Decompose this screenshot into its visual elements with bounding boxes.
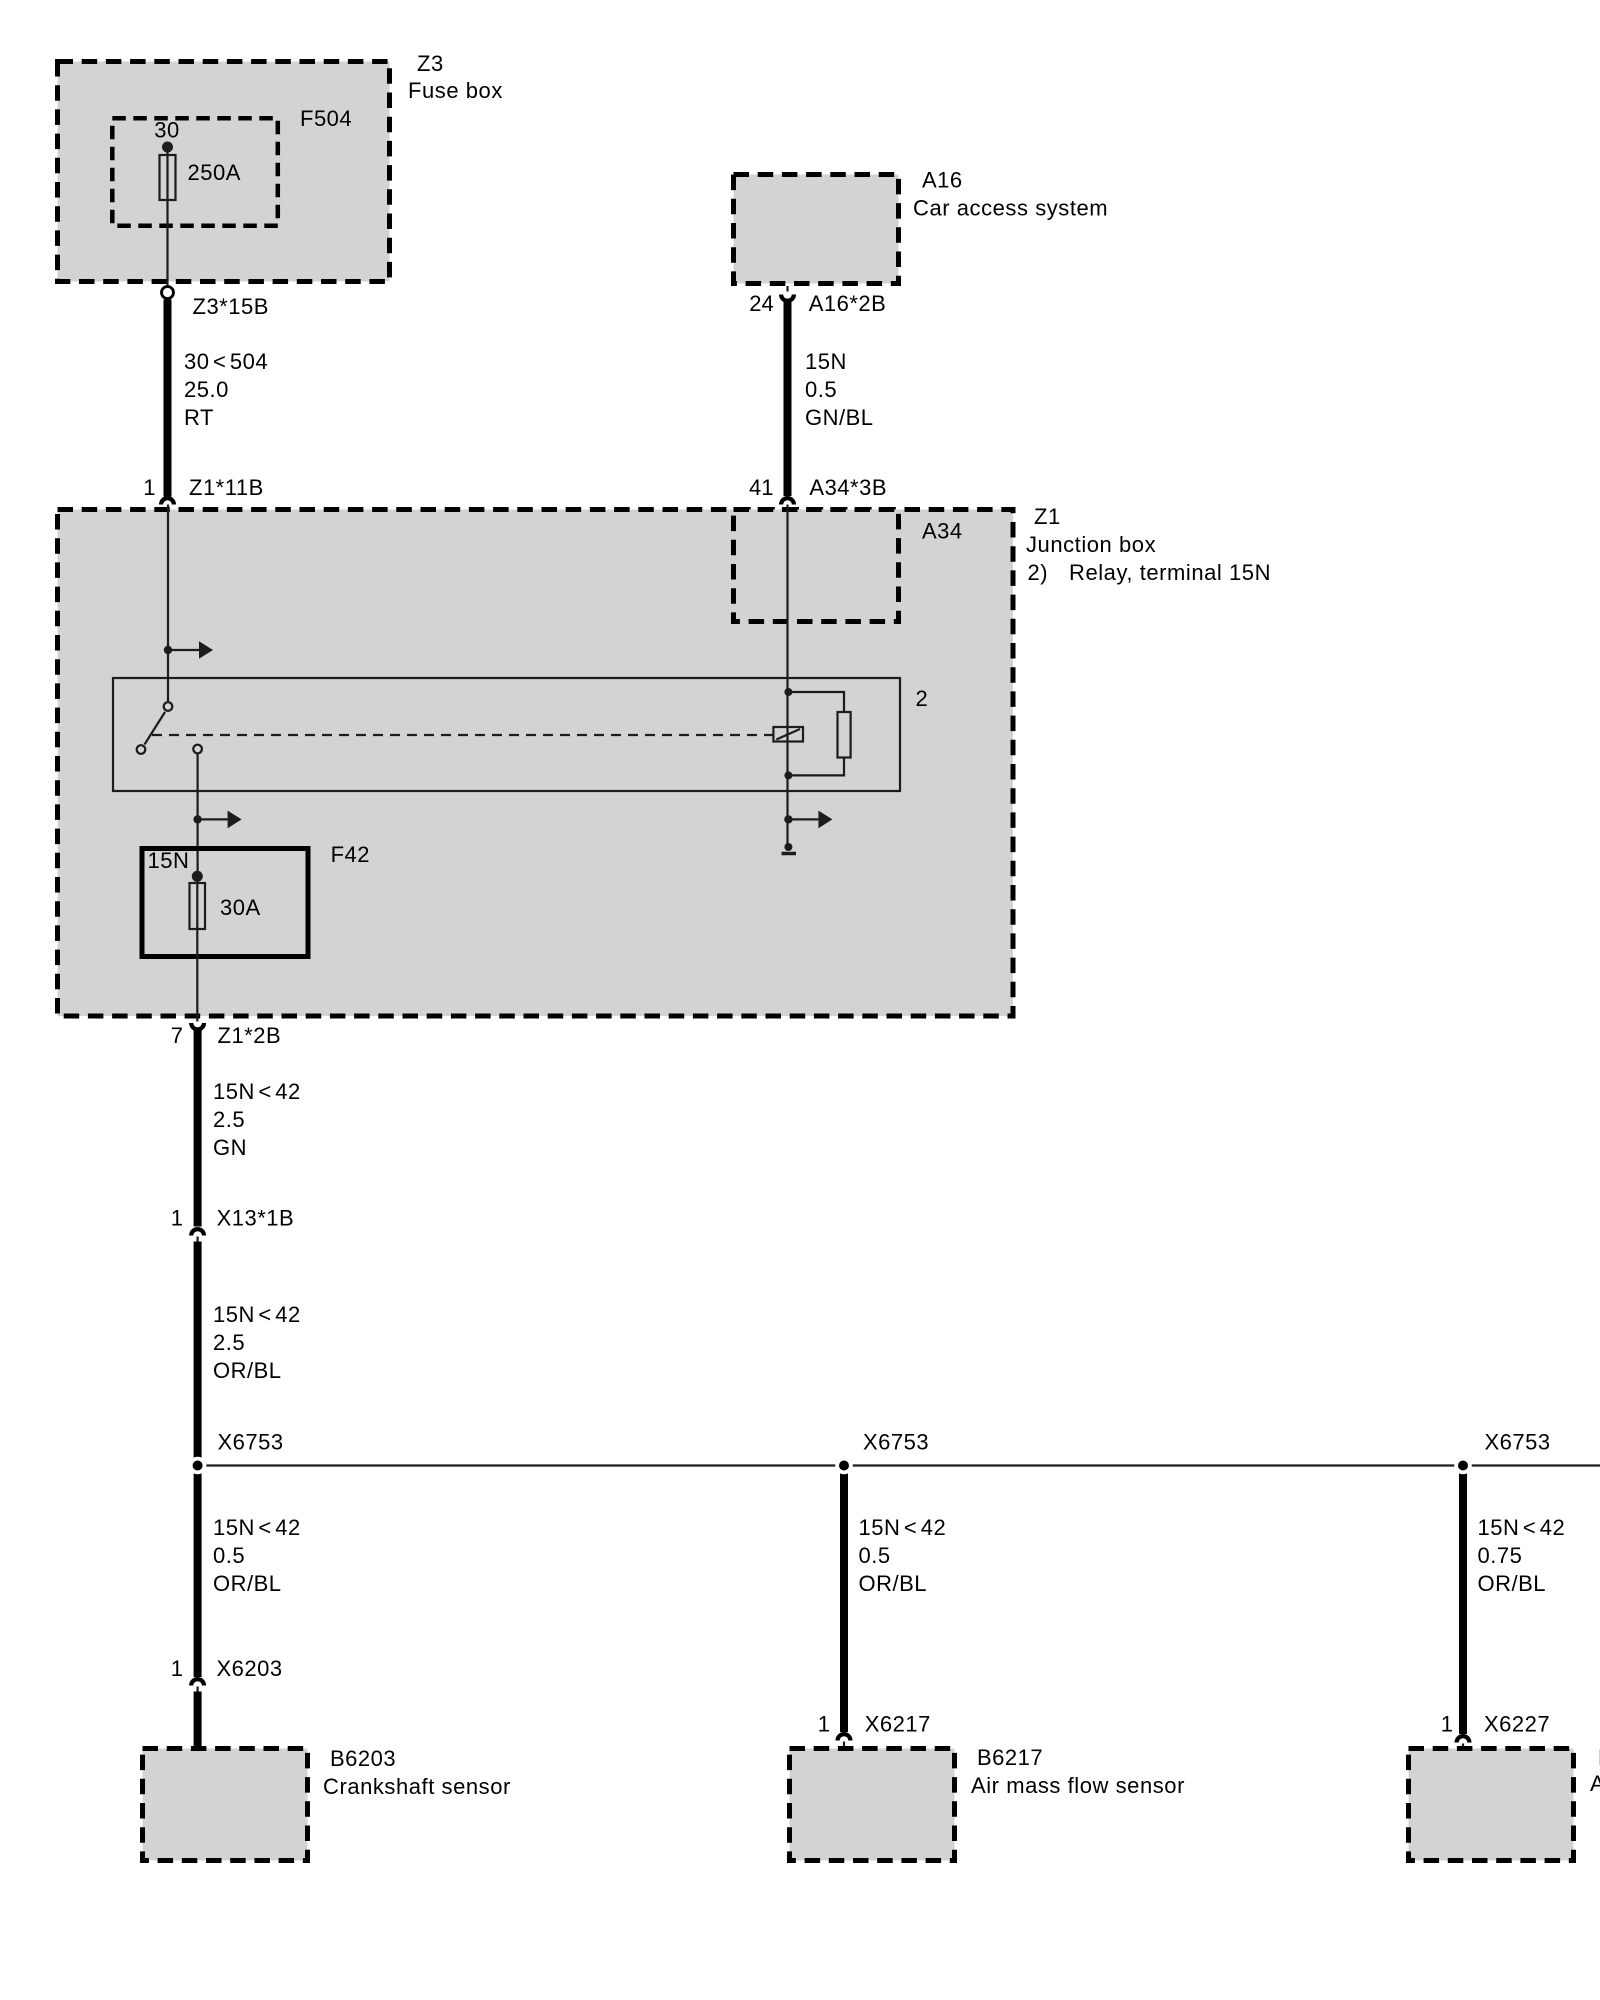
label 15N	[148, 848, 190, 873]
svg-text:RT: RT	[184, 405, 214, 430]
pin 1 connector X6217	[818, 1712, 931, 1747]
pin 1 connector X13*1B	[171, 1206, 294, 1242]
svg-text:A16*2B: A16*2B	[809, 291, 887, 316]
svg-text:A34*3B: A34*3B	[809, 475, 887, 500]
splice X6753 right	[1454, 1430, 1550, 1475]
module B6203 Crankshaft sensor	[143, 1746, 511, 1861]
svg-text:Crankshaft sensor: Crankshaft sensor	[323, 1774, 511, 1799]
pin 1 connector X6227	[1441, 1712, 1550, 1749]
svg-text:B6217: B6217	[977, 1745, 1043, 1770]
svg-text:Relay, terminal 15N: Relay, terminal 15N	[1069, 560, 1271, 585]
svg-text:Z3: Z3	[417, 51, 444, 76]
label Z1 Junction box	[1026, 504, 1271, 585]
svg-text:15N: 15N	[805, 349, 847, 374]
wire X6203 to B6203	[194, 1692, 202, 1747]
fuse F504 250A	[160, 155, 241, 200]
branch wire to X6227	[1463, 1466, 1565, 1734]
svg-text:2): 2)	[1028, 560, 1049, 585]
wire 30<504 25.0 RT	[168, 300, 269, 497]
coil suppression resistor	[788, 692, 850, 775]
module A16 Car access system	[734, 175, 899, 284]
wire switch output to F42	[197, 753, 199, 875]
svg-text:X6203: X6203	[217, 1656, 283, 1681]
svg-text:Car access system: Car access system	[913, 196, 1108, 221]
terminal 30 node	[154, 118, 179, 153]
wire F42 to Z1 border	[196, 876, 198, 1022]
module B6217 Air mass flow sensor	[790, 1745, 1185, 1861]
svg-text:X6217: X6217	[865, 1712, 931, 1737]
svg-text:0.75: 0.75	[1478, 1543, 1523, 1568]
fuse F42 30A	[190, 883, 261, 929]
svg-text:X6227: X6227	[1484, 1712, 1550, 1737]
label Z3 Fuse box	[408, 51, 503, 103]
pin 7 connector Z1*2B	[171, 1023, 281, 1048]
svg-text:30: 30	[154, 118, 179, 143]
svg-text:1: 1	[1441, 1712, 1453, 1737]
wire 15N<42 2.5 OR/BL	[198, 1242, 301, 1466]
svg-text:GN: GN	[213, 1135, 247, 1160]
svg-text:OR/BL: OR/BL	[213, 1358, 282, 1383]
label A16 Car access system	[913, 168, 1108, 221]
pin 41 connector A34*3B	[749, 475, 887, 505]
wire 15N<42 2.5 GN	[198, 1028, 301, 1227]
svg-text:1: 1	[171, 1206, 183, 1231]
svg-text:X13*1B: X13*1B	[217, 1206, 295, 1231]
branch wire to X6203	[198, 1466, 301, 1677]
svg-text:F42: F42	[331, 842, 370, 867]
node 15N in F42	[192, 871, 203, 882]
pin 1 connector X6203	[171, 1656, 283, 1692]
module B6227	[1409, 1745, 1600, 1861]
svg-text:Air mass flow sensor: Air mass flow sensor	[971, 1773, 1185, 1798]
svg-text:X6753: X6753	[1485, 1430, 1551, 1455]
svg-text:Z1*11B: Z1*11B	[189, 475, 264, 500]
svg-text:Z1*2B: Z1*2B	[218, 1023, 282, 1048]
svg-text:Z1: Z1	[1034, 504, 1061, 529]
ground	[782, 843, 797, 854]
svg-text:B6203: B6203	[330, 1746, 396, 1771]
svg-text:X6753: X6753	[863, 1430, 929, 1455]
svg-text:25.0: 25.0	[184, 377, 229, 402]
relay module A34	[734, 510, 963, 622]
wire through fuse F504	[166, 152, 168, 286]
svg-text:GN/BL: GN/BL	[805, 405, 874, 430]
svg-text:250A: 250A	[188, 160, 241, 185]
svg-text:1: 1	[171, 1656, 183, 1681]
svg-text:30A: 30A	[220, 895, 261, 920]
svg-text:1: 1	[818, 1712, 830, 1737]
svg-text:2.5: 2.5	[213, 1330, 245, 1355]
current arrow at coil output	[784, 811, 832, 829]
splice X6753 left	[189, 1430, 284, 1475]
svg-text:Ambient sensor: Ambient sensor	[1590, 1771, 1600, 1796]
bus wire X6753	[198, 1464, 1600, 1466]
svg-text:X6753: X6753	[218, 1430, 284, 1455]
fuse box Z3	[58, 62, 390, 282]
svg-text:7: 7	[171, 1023, 183, 1048]
connector Z3*15B	[162, 287, 269, 320]
wire 15N 0.5 GN/BL	[788, 299, 874, 497]
svg-text:Junction box: Junction box	[1026, 532, 1156, 557]
svg-text:15N: 15N	[148, 848, 190, 873]
svg-text:OR/BL: OR/BL	[1478, 1571, 1547, 1596]
svg-text:OR/BL: OR/BL	[213, 1571, 282, 1596]
fuse box F42	[142, 842, 370, 957]
current arrow at node	[164, 641, 213, 659]
wire A34 pin to relay coil	[786, 505, 788, 693]
svg-text:2.5: 2.5	[213, 1107, 245, 1132]
svg-text:A16: A16	[922, 168, 963, 193]
svg-text:1: 1	[143, 475, 155, 500]
pin 1 connector Z1*11B	[143, 475, 264, 505]
svg-text:Fuse box: Fuse box	[408, 78, 503, 103]
svg-text:0.5: 0.5	[213, 1543, 245, 1568]
svg-text:2: 2	[916, 686, 929, 711]
wire coil to ground	[786, 775, 788, 847]
junction box Z1	[58, 510, 1014, 1017]
svg-text:A34: A34	[922, 519, 963, 544]
current arrow at switch output	[193, 811, 241, 829]
mechanical link dashed	[152, 734, 773, 736]
wire from Z1*11B pin to relay switch	[167, 505, 169, 703]
branch wire to X6217	[844, 1466, 946, 1732]
svg-text:0.5: 0.5	[859, 1543, 891, 1568]
splice X6753 middle	[835, 1430, 929, 1475]
fuse holder F504	[112, 106, 352, 226]
pin 24 connector A16*2B	[749, 286, 886, 316]
svg-text:0.5: 0.5	[805, 377, 837, 402]
svg-text:OR/BL: OR/BL	[859, 1571, 928, 1596]
svg-text:24: 24	[749, 291, 773, 316]
svg-text:F504: F504	[300, 106, 352, 131]
relay 2 outline	[113, 678, 928, 791]
svg-text:Z3*15B: Z3*15B	[193, 294, 269, 319]
relay coil K2	[773, 688, 803, 779]
svg-text:41: 41	[749, 475, 773, 500]
relay switch contacts	[137, 702, 202, 754]
svg-text:30<504: 30<504	[184, 349, 268, 374]
